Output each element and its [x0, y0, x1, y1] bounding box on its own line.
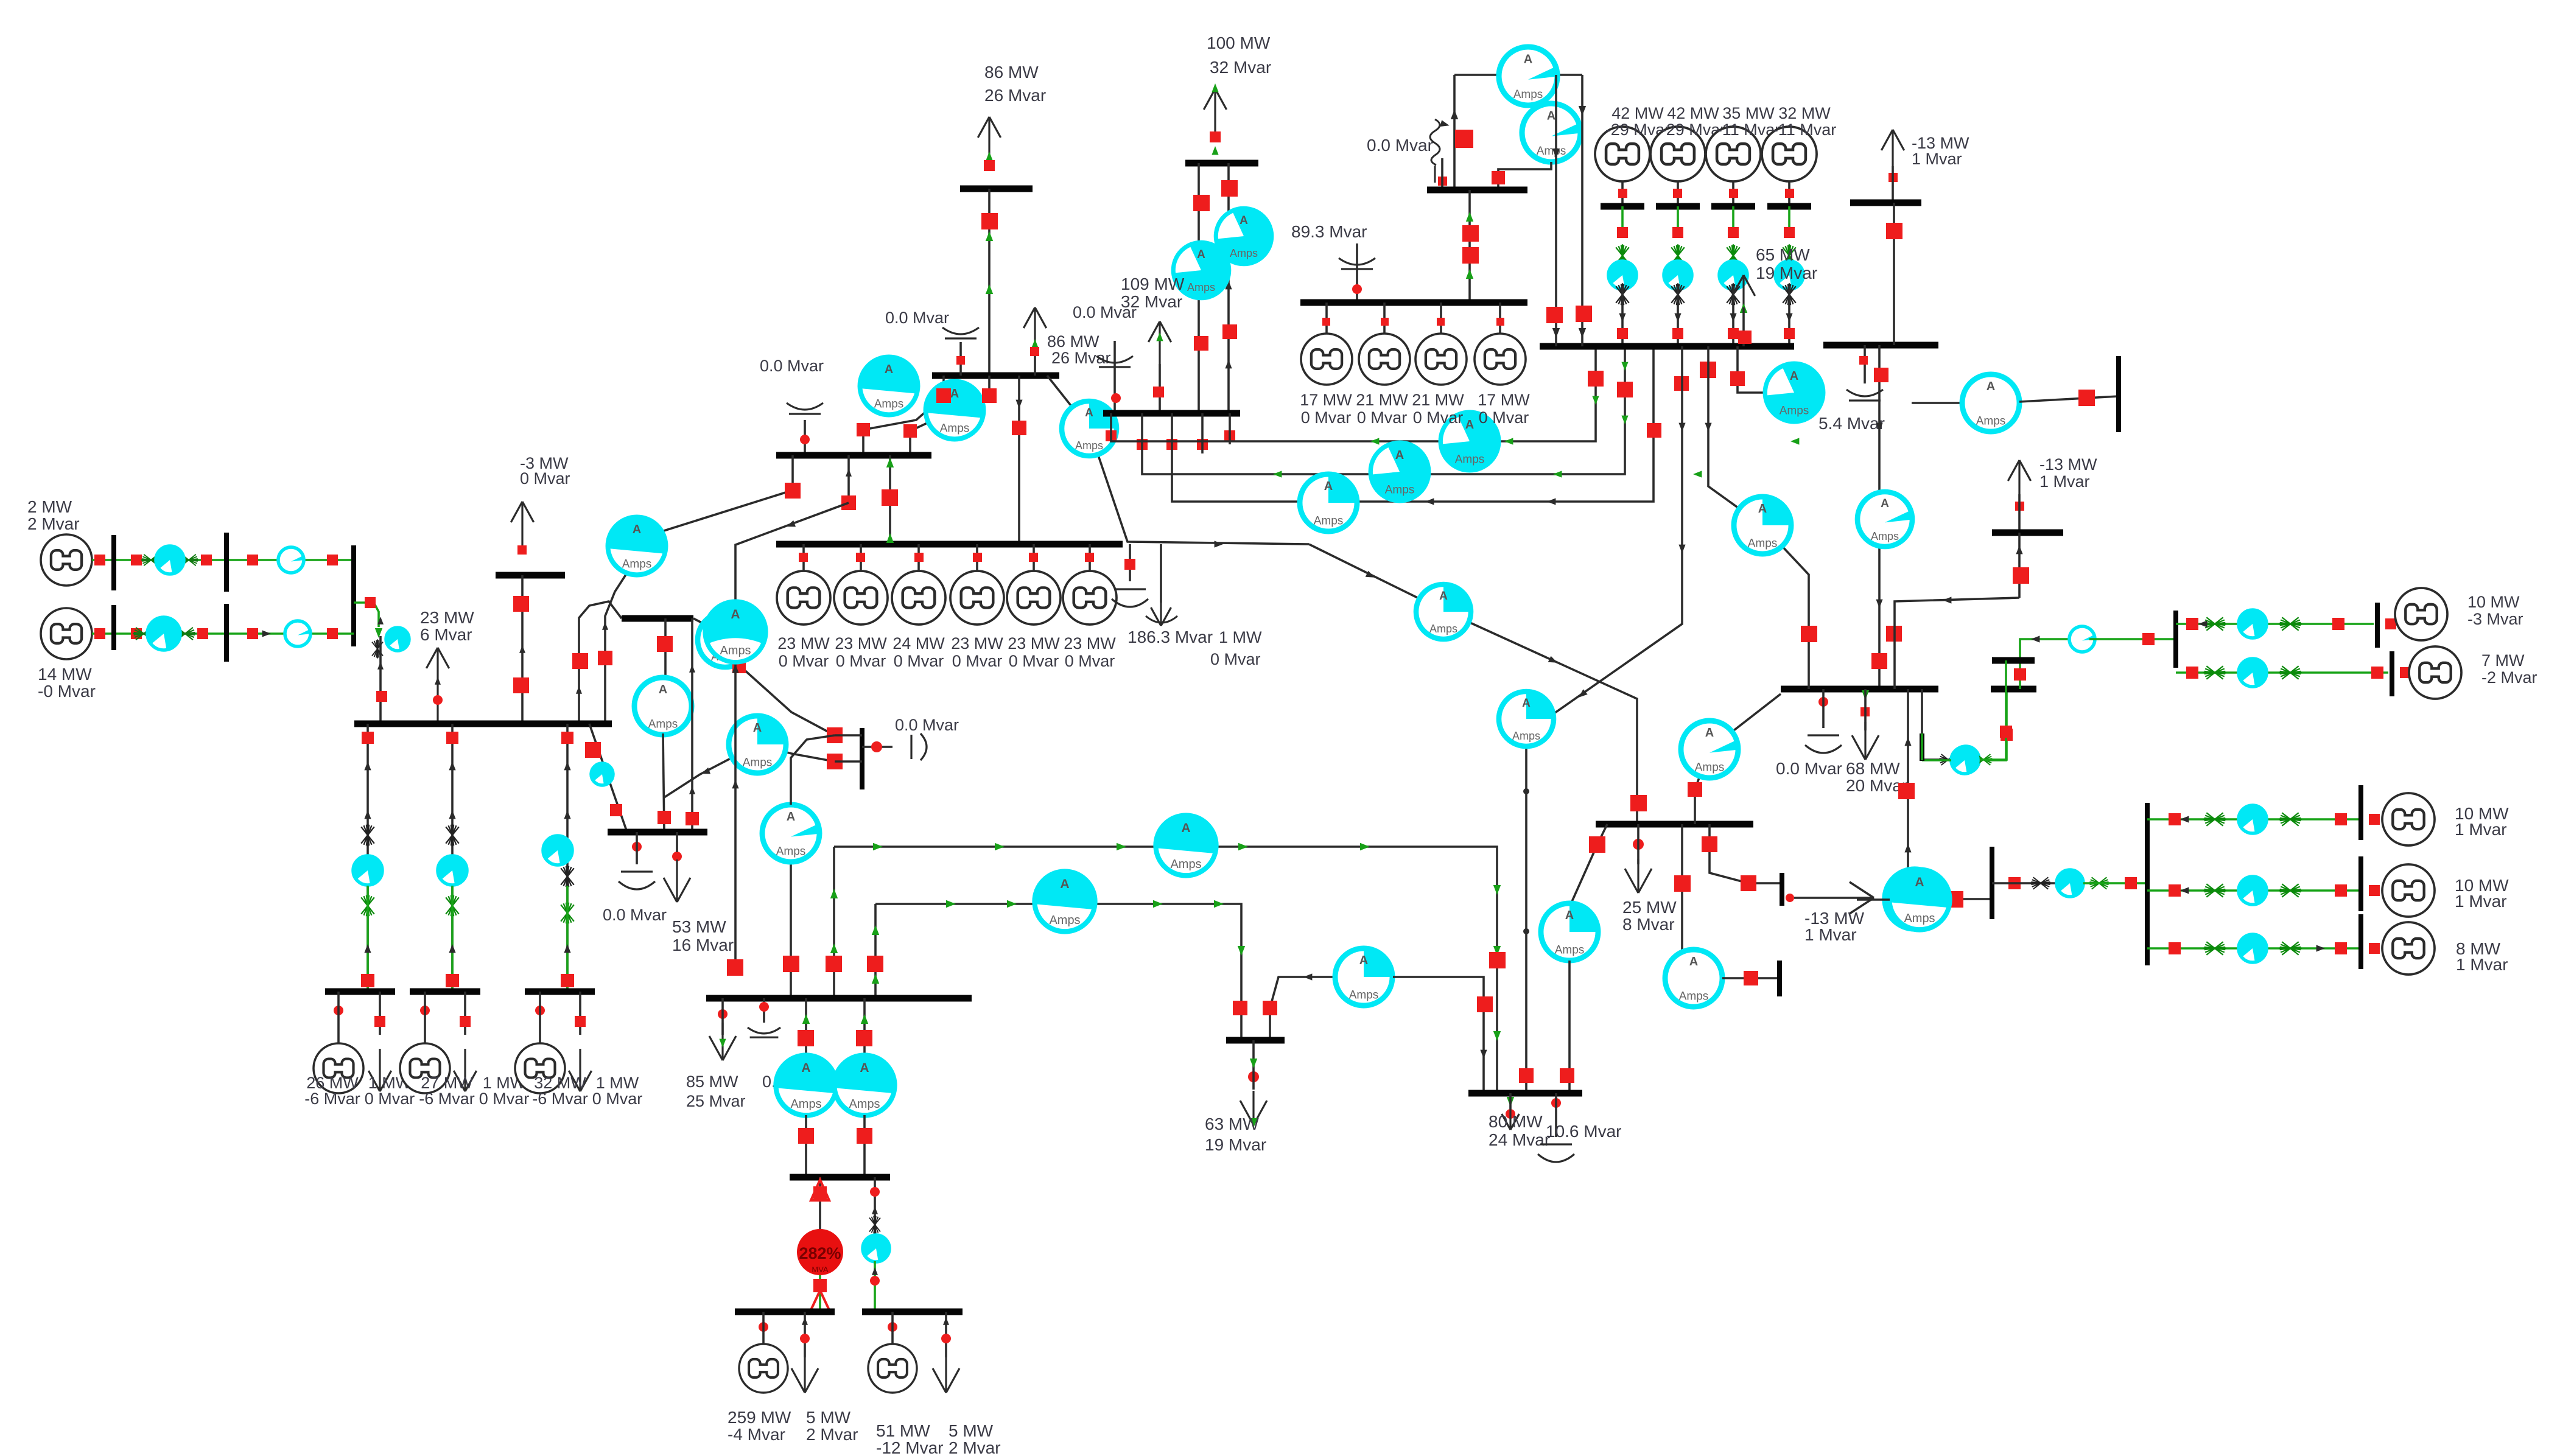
svg-text:26 Mvar: 26 Mvar [984, 86, 1046, 105]
svg-text:42 MW: 42 MW [1611, 104, 1664, 122]
svg-text:24 Mvar: 24 Mvar [1489, 1130, 1550, 1149]
svg-text:Amps: Amps [874, 397, 904, 410]
svg-text:-4 Mvar: -4 Mvar [728, 1425, 785, 1444]
svg-text:Amps: Amps [1904, 912, 1935, 925]
svg-text:Amps: Amps [1385, 483, 1415, 496]
svg-text:6 Mvar: 6 Mvar [420, 625, 472, 644]
svg-text:0 Mvar: 0 Mvar [479, 1090, 530, 1108]
svg-text:A: A [1522, 697, 1531, 710]
svg-text:Amps: Amps [1230, 247, 1258, 259]
svg-text:80 MW: 80 MW [1489, 1112, 1543, 1131]
svg-text:A: A [1987, 380, 1995, 393]
svg-text:63 MW: 63 MW [1205, 1115, 1259, 1133]
svg-text:25 Mvar: 25 Mvar [686, 1092, 746, 1110]
svg-text:65 MW: 65 MW [1756, 245, 1810, 264]
svg-text:A: A [787, 810, 795, 824]
svg-text:A: A [659, 683, 667, 696]
svg-text:186.3 Mvar: 186.3 Mvar [1127, 628, 1213, 646]
svg-text:24 MW: 24 MW [892, 634, 945, 653]
svg-text:A: A [1790, 369, 1798, 383]
svg-text:A: A [860, 1061, 869, 1075]
svg-text:23 MW: 23 MW [835, 634, 887, 653]
svg-text:32 Mvar: 32 Mvar [1210, 58, 1271, 77]
svg-text:10 MW: 10 MW [2467, 593, 2520, 611]
svg-text:A: A [950, 387, 959, 401]
svg-text:A: A [1060, 877, 1069, 891]
svg-text:0.0 Mvar: 0.0 Mvar [1073, 303, 1137, 321]
svg-text:A: A [1881, 497, 1889, 510]
svg-text:5 MW: 5 MW [949, 1421, 994, 1440]
svg-text:MVA: MVA [812, 1265, 829, 1274]
svg-text:Amps: Amps [1976, 415, 2006, 427]
svg-text:Amps: Amps [1314, 514, 1344, 527]
svg-text:2 Mvar: 2 Mvar [27, 514, 80, 533]
svg-text:-0 Mvar: -0 Mvar [38, 682, 96, 701]
svg-text:Amps: Amps [1513, 88, 1543, 101]
svg-text:A: A [1324, 480, 1333, 493]
svg-text:0 Mvar: 0 Mvar [365, 1090, 415, 1108]
svg-text:A: A [1181, 821, 1190, 835]
svg-text:Amps: Amps [1075, 439, 1103, 452]
svg-text:-12 Mvar: -12 Mvar [876, 1438, 943, 1456]
svg-text:-6 Mvar: -6 Mvar [419, 1090, 475, 1108]
svg-text:Amps: Amps [720, 644, 751, 657]
svg-text:0.0 Mvar: 0.0 Mvar [603, 906, 667, 924]
svg-text:1 Mvar: 1 Mvar [2039, 472, 2090, 491]
svg-text:Amps: Amps [648, 718, 678, 730]
svg-text:-2 Mvar: -2 Mvar [2481, 668, 2537, 687]
svg-text:A: A [1705, 726, 1714, 740]
svg-text:0 Mvar: 0 Mvar [1479, 408, 1529, 427]
svg-text:0.0 Mvar: 0.0 Mvar [895, 716, 959, 734]
svg-text:Amps: Amps [1871, 530, 1899, 542]
svg-text:0 Mvar: 0 Mvar [1210, 650, 1261, 668]
svg-text:A: A [1524, 52, 1532, 66]
svg-text:Amps: Amps [1780, 404, 1809, 417]
svg-text:1 Mvar: 1 Mvar [1804, 925, 1857, 944]
svg-text:282%: 282% [799, 1244, 841, 1262]
svg-text:A: A [1465, 418, 1474, 432]
svg-text:Amps: Amps [1537, 145, 1566, 158]
svg-text:0.0 Mvar: 0.0 Mvar [1367, 136, 1433, 155]
svg-text:Amps: Amps [743, 756, 773, 769]
svg-text:A: A [1547, 109, 1555, 122]
svg-text:1 Mvar: 1 Mvar [1912, 150, 1962, 168]
svg-text:A: A [1359, 954, 1368, 967]
svg-text:A: A [1085, 407, 1093, 419]
svg-text:23 MW: 23 MW [1008, 634, 1060, 653]
svg-text:25 MW: 25 MW [1622, 898, 1677, 917]
svg-text:23 MW: 23 MW [1064, 634, 1116, 653]
svg-text:21 MW: 21 MW [1412, 391, 1464, 409]
svg-text:0 Mvar: 0 Mvar [1009, 652, 1059, 670]
svg-text:89.3 Mvar: 89.3 Mvar [1291, 222, 1367, 241]
svg-text:26 Mvar: 26 Mvar [1051, 349, 1111, 367]
svg-text:86 MW: 86 MW [1047, 332, 1099, 351]
svg-text:23 MW: 23 MW [951, 634, 1003, 653]
svg-text:21 MW: 21 MW [1356, 391, 1408, 409]
svg-text:Amps: Amps [622, 558, 652, 570]
svg-text:Amps: Amps [1187, 281, 1215, 293]
svg-text:35 MW: 35 MW [1722, 104, 1775, 122]
svg-text:A: A [801, 1061, 810, 1075]
svg-text:A: A [731, 607, 740, 621]
svg-text:5 MW: 5 MW [806, 1408, 851, 1427]
svg-text:68 MW: 68 MW [1846, 759, 1900, 778]
svg-text:19 Mvar: 19 Mvar [1756, 264, 1817, 282]
svg-text:23 MW: 23 MW [777, 634, 830, 653]
svg-text:0.0 Mvar: 0.0 Mvar [1776, 759, 1842, 778]
svg-text:2 Mvar: 2 Mvar [806, 1425, 858, 1444]
svg-text:51 MW: 51 MW [876, 1421, 930, 1440]
svg-text:1 MW: 1 MW [1219, 628, 1262, 646]
svg-text:Amps: Amps [1555, 943, 1585, 956]
svg-text:Amps: Amps [1049, 914, 1080, 927]
svg-text:Amps: Amps [1349, 989, 1379, 1001]
svg-text:-6 Mvar: -6 Mvar [532, 1090, 588, 1108]
svg-text:A: A [1915, 875, 1924, 889]
svg-text:Amps: Amps [1512, 730, 1540, 742]
svg-text:A: A [1565, 909, 1574, 922]
svg-text:2 Mvar: 2 Mvar [949, 1438, 1001, 1456]
svg-text:A: A [633, 523, 641, 536]
svg-text:0 Mvar: 0 Mvar [1413, 408, 1464, 427]
svg-text:53 MW: 53 MW [672, 917, 726, 936]
svg-text:20 Mvar: 20 Mvar [1846, 776, 1907, 795]
svg-text:17 MW: 17 MW [1478, 391, 1530, 409]
svg-text:19 Mvar: 19 Mvar [1205, 1135, 1266, 1154]
svg-text:1 Mvar: 1 Mvar [2455, 820, 2507, 839]
svg-text:23 MW: 23 MW [420, 608, 474, 627]
svg-text:Amps: Amps [849, 1097, 880, 1111]
svg-text:85 MW: 85 MW [686, 1073, 738, 1091]
svg-text:42 MW: 42 MW [1667, 104, 1719, 122]
svg-text:5.4 Mvar: 5.4 Mvar [1818, 414, 1885, 433]
svg-text:109 MW: 109 MW [1121, 275, 1185, 293]
svg-text:86 MW: 86 MW [984, 63, 1039, 82]
svg-text:Amps: Amps [1429, 623, 1457, 635]
svg-text:0 Mvar: 0 Mvar [592, 1090, 643, 1108]
svg-text:A: A [1689, 955, 1698, 968]
svg-text:0 Mvar: 0 Mvar [894, 652, 944, 670]
svg-text:0 Mvar: 0 Mvar [779, 652, 829, 670]
svg-text:-11 Mvar: -11 Mvar [1773, 121, 1837, 139]
svg-text:1 Mvar: 1 Mvar [2455, 892, 2507, 911]
svg-text:Amps: Amps [1695, 761, 1725, 774]
svg-text:0 Mvar: 0 Mvar [1301, 408, 1352, 427]
svg-text:A: A [1758, 502, 1767, 516]
svg-text:-3 Mvar: -3 Mvar [2467, 610, 2523, 628]
svg-text:A: A [1395, 449, 1404, 462]
svg-text:2 MW: 2 MW [27, 497, 72, 516]
svg-text:Amps: Amps [940, 422, 970, 435]
svg-text:0.0 Mvar: 0.0 Mvar [885, 309, 949, 327]
svg-text:Amps: Amps [1679, 990, 1709, 1003]
svg-text:14 MW: 14 MW [38, 665, 92, 684]
svg-text:A: A [885, 363, 893, 376]
svg-text:16 Mvar: 16 Mvar [672, 936, 734, 954]
svg-text:0 Mvar: 0 Mvar [1065, 652, 1115, 670]
svg-text:A: A [753, 721, 762, 735]
svg-text:0 Mvar: 0 Mvar [952, 652, 1003, 670]
svg-text:-13 MW: -13 MW [2039, 455, 2097, 474]
svg-text:17 MW: 17 MW [1300, 391, 1352, 409]
svg-text:Amps: Amps [1455, 453, 1485, 466]
svg-text:259 MW: 259 MW [728, 1408, 791, 1427]
svg-text:Amps: Amps [1170, 858, 1201, 871]
svg-text:Amps: Amps [790, 1097, 821, 1111]
svg-text:A: A [1439, 590, 1448, 603]
svg-text:100 MW: 100 MW [1207, 33, 1271, 52]
svg-text:7 MW: 7 MW [2481, 651, 2525, 670]
svg-text:10.6 Mvar: 10.6 Mvar [1546, 1122, 1622, 1141]
svg-text:-6 Mvar: -6 Mvar [304, 1090, 360, 1108]
svg-text:Amps: Amps [776, 845, 806, 858]
svg-text:0.0 Mvar: 0.0 Mvar [760, 357, 824, 375]
svg-text:0 Mvar: 0 Mvar [836, 652, 886, 670]
svg-text:32 MW: 32 MW [1778, 104, 1831, 122]
svg-text:8 Mvar: 8 Mvar [1622, 915, 1675, 934]
svg-text:0 Mvar: 0 Mvar [520, 469, 570, 488]
svg-text:A: A [1197, 248, 1205, 261]
svg-text:1 Mvar: 1 Mvar [2456, 955, 2508, 974]
svg-text:0 Mvar: 0 Mvar [1357, 408, 1408, 427]
svg-text:A: A [1240, 214, 1248, 227]
svg-text:Amps: Amps [1748, 537, 1778, 550]
